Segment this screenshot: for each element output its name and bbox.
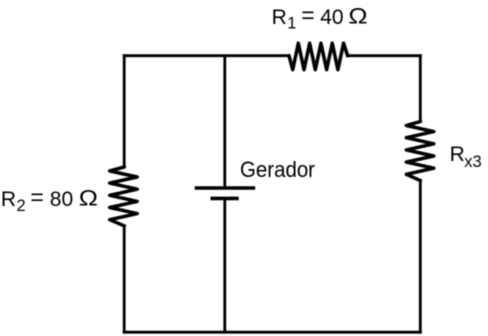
svg-text:1: 1 [287, 15, 296, 33]
svg-text:2: 2 [17, 197, 26, 215]
svg-text:Ω: Ω [79, 185, 98, 210]
svg-text:R: R [1, 188, 16, 211]
svg-text:=: = [301, 2, 314, 28]
svg-text:Ω: Ω [348, 3, 367, 28]
svg-text:80: 80 [50, 188, 73, 211]
svg-text:x3: x3 [464, 153, 481, 171]
svg-text:R: R [272, 6, 287, 29]
svg-text:R: R [450, 143, 465, 166]
svg-text:Gerador: Gerador [240, 157, 315, 182]
svg-text:40: 40 [320, 6, 343, 29]
svg-text:=: = [30, 184, 43, 210]
